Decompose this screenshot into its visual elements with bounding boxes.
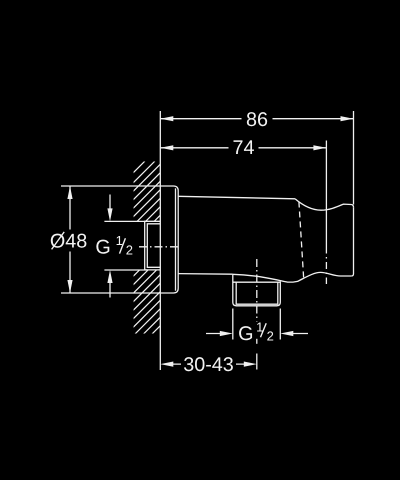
head bottom curve	[233, 272, 351, 282]
slash of bottom G1/2	[261, 323, 267, 337]
label G1/2 left	[95, 233, 133, 258]
body bottom line	[178, 273, 233, 276]
wall line	[159, 111, 161, 370]
arrow G1/2 left bottom	[107, 270, 112, 283]
dimension shafts bottom G1/2	[206, 333, 308, 335]
inlet spigot outer	[145, 221, 161, 270]
cone center / 74 extension line	[325, 141, 327, 247]
svg-text:74: 74	[232, 137, 254, 159]
dimension line 74	[160, 147, 326, 149]
head top concave curve	[295, 199, 354, 210]
inlet spigot inner thread lines	[147, 224, 160, 267]
svg-text:G: G	[238, 323, 253, 345]
flange inner edge line	[175, 188, 177, 290]
dimension line D48	[69, 186, 71, 293]
arrow D48 up	[67, 186, 72, 199]
svg-text:1: 1	[116, 233, 123, 248]
hidden cone line (dashed)	[299, 202, 304, 281]
arrow 74 right	[313, 145, 326, 150]
dimension line 86	[160, 118, 353, 120]
slash of left G1/2	[120, 238, 126, 253]
arrow G1/2 bottom left	[220, 331, 233, 336]
label G1/2 bottom	[238, 319, 274, 345]
wall hatching	[126, 144, 162, 377]
extension lines D48	[61, 186, 160, 293]
svg-text:30-43: 30-43	[183, 354, 234, 376]
dimension line 30-43	[173, 363, 245, 365]
arrow shafts left G1/2	[109, 195, 111, 298]
arrow 30-43 right	[244, 362, 257, 367]
extension lines bottom G1/2	[233, 309, 280, 340]
head right edge	[351, 207, 353, 276]
extension line right 86	[353, 111, 355, 205]
arrow G1/2 bottom right	[280, 331, 293, 336]
outlet pipe centerline upper	[256, 259, 258, 322]
svg-text:86: 86	[246, 109, 268, 131]
svg-text:O48: O48	[50, 231, 87, 253]
arrow 86 left	[160, 116, 173, 121]
extension line pipe center 30-43	[256, 354, 258, 370]
arrow D48 down	[67, 280, 72, 293]
outlet pipe centerline lower	[256, 339, 258, 346]
svg-text:2: 2	[126, 242, 133, 257]
inlet centerline	[139, 246, 178, 248]
svg-text:2: 2	[267, 328, 274, 343]
arrow G1/2 left top	[107, 208, 112, 221]
arrow 30-43 left	[160, 362, 173, 367]
body top line	[178, 196, 295, 199]
outlet pipe top seam	[233, 281, 280, 283]
svg-text:G: G	[95, 236, 110, 258]
outlet pipe inner thread lines	[236, 282, 278, 304]
arrow 74 left	[160, 145, 173, 150]
slash of diameter sign	[52, 232, 65, 250]
outlet pipe outer	[233, 274, 280, 306]
extension lines left G1/2	[104, 221, 147, 270]
arrow 86 right	[341, 116, 354, 121]
flange	[160, 186, 178, 293]
